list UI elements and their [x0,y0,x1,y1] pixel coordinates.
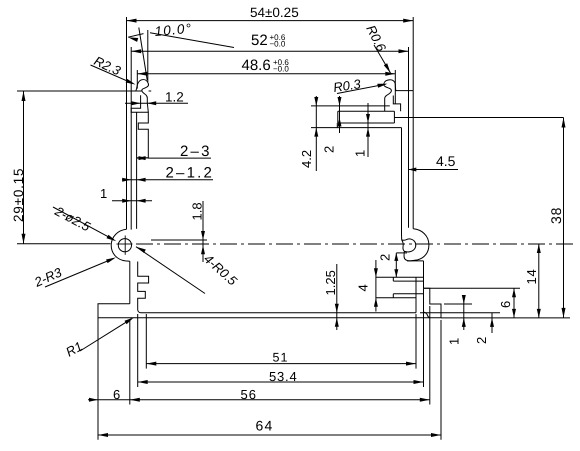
dim ext 51 left [145,314,147,369]
svg-text:2–1.2: 2–1.2 [166,165,215,182]
ext line under plate left [311,127,337,129]
internal rail bar [338,111,395,123]
profile right wall top face [395,90,413,92]
right wall rib upper [376,276,424,278]
dimension 14 [538,244,540,318]
dim 38 extension top [394,117,563,119]
profile left wall outer face [126,91,128,229]
dim 48.6 extension left [136,70,138,89]
dimension 2-1.2 [122,179,213,181]
dim 1.8 extension [151,239,207,241]
dim 48.6 extension right [394,70,396,104]
right wall rib lower [393,293,423,295]
dimension 1.2 of hook leg [125,102,188,104]
screw boss left outer [111,229,130,261]
dimension 2 boss [395,253,397,277]
svg-text:48.6: 48.6 [242,57,271,74]
profile bottom flange and outer bottom [98,288,441,318]
dimension 51 [146,363,416,365]
svg-text:1: 1 [353,150,368,157]
profile bottom inner face [142,312,416,314]
dim 6 extension [424,287,520,289]
svg-text:4.5: 4.5 [436,153,456,169]
screw boss left hole centerline [124,236,126,255]
dimension 4.5 [408,169,458,171]
dimension 48.6 +0.6 -0.0 [137,73,395,75]
dim 38 extension bottom [441,317,570,319]
dim 54 extension right [412,17,414,91]
dimension 1 right [463,296,465,330]
dim ext 56 right [429,306,431,405]
dim 54 extension left [126,17,128,91]
screw boss right inner arc [402,239,416,252]
profile left lower wall inner [138,262,149,313]
angle dimension 10.0° [128,37,138,42]
dimension 53.4 [138,381,424,383]
dimension 56 [130,399,430,401]
svg-text:6: 6 [498,301,513,308]
dim ext 56 left [129,319,131,405]
profile right hook curl [384,80,396,112]
svg-text:1: 1 [100,186,107,201]
svg-text:29±0.15: 29±0.15 [11,168,26,222]
dimension 1.8 [202,201,204,262]
ext line hook bottom right [311,105,390,107]
profile right lower wall outer [423,261,425,288]
dim ext 64 right [440,320,442,440]
dimension 29±0.15 [23,91,25,244]
dimension 6 bottom [88,399,130,401]
screw boss right opening upper lip [402,235,405,252]
svg-text:53.4: 53.4 [269,369,298,384]
dimension 6 right [513,288,515,318]
tick right of left hook [149,90,152,92]
dim ext line above left hook [147,30,149,82]
dim 52 extension right [408,47,410,91]
profile left hook leg [131,95,148,157]
dimension 38 [563,118,565,318]
dimension 1 wall thickness [112,200,152,202]
ext line flange top right [444,303,472,305]
centerline through left hole [117,243,133,245]
dim ext 51 right [415,314,417,369]
internal rail under plate [337,123,401,128]
profile right wall middle line [408,91,410,228]
svg-text:56: 56 [241,387,257,402]
profile left hook curl [136,80,149,104]
dimension 54±0.25 [127,20,414,22]
dimension 1 top [367,103,369,157]
svg-text:54±0.25: 54±0.25 [250,5,299,20]
profile left wall middle line [130,47,132,230]
svg-text:2: 2 [474,337,489,344]
dimension 2 top [339,96,341,133]
ext line bottom inner right [420,312,500,314]
dim ext 53.4 left [137,314,139,387]
svg-text:2: 2 [378,254,393,261]
svg-text:14: 14 [524,268,539,284]
dim ext 64 left [97,306,99,440]
left lip 10 degree slant extension [139,28,147,81]
profile right wall inner face [401,128,403,235]
svg-text:4.2: 4.2 [299,150,314,168]
dimension 52 +0.6 -0.0 [131,50,408,52]
svg-text:−0.0: −0.0 [273,65,289,74]
ext line boss slot [396,252,407,254]
dimension 64 [98,434,441,436]
svg-text:1.8: 1.8 [190,202,205,220]
profile left lower wall outer [129,261,131,304]
screw boss right outer [404,229,429,261]
dimension 1.25 [336,264,338,330]
profile right hook leg [393,96,400,112]
dim 29 extension top [17,90,142,92]
svg-text:−0.0: −0.0 [270,40,286,49]
profile left wall inner face [136,112,138,229]
svg-text:64: 64 [256,418,274,434]
profile right wall outer face [412,91,414,229]
profile right lower wall inner [415,277,417,313]
dimension 2 right [491,313,493,333]
svg-text:6: 6 [113,387,120,402]
svg-text:51: 51 [273,351,289,365]
svg-text:1.2: 1.2 [165,90,184,105]
profile left wall top face [127,90,136,92]
svg-text:52: 52 [251,32,268,49]
dimension 4 ribs [375,260,377,312]
svg-text:2–3: 2–3 [180,143,212,160]
dimension 2-3 [148,157,212,159]
dim ext 53.4 right [423,288,425,387]
svg-text:1.25: 1.25 [323,270,338,295]
dim 29 extension bottom [17,243,111,245]
profile bottom right fillet [424,312,431,318]
svg-text:38: 38 [548,207,564,224]
svg-text:4: 4 [356,284,371,291]
horizontal centerline [136,243,153,245]
dimension 4.2 [315,96,317,171]
svg-text:2: 2 [322,146,337,153]
svg-text:1: 1 [447,338,462,345]
screw boss right shelf [407,260,424,262]
screw boss left hole [118,239,131,252]
